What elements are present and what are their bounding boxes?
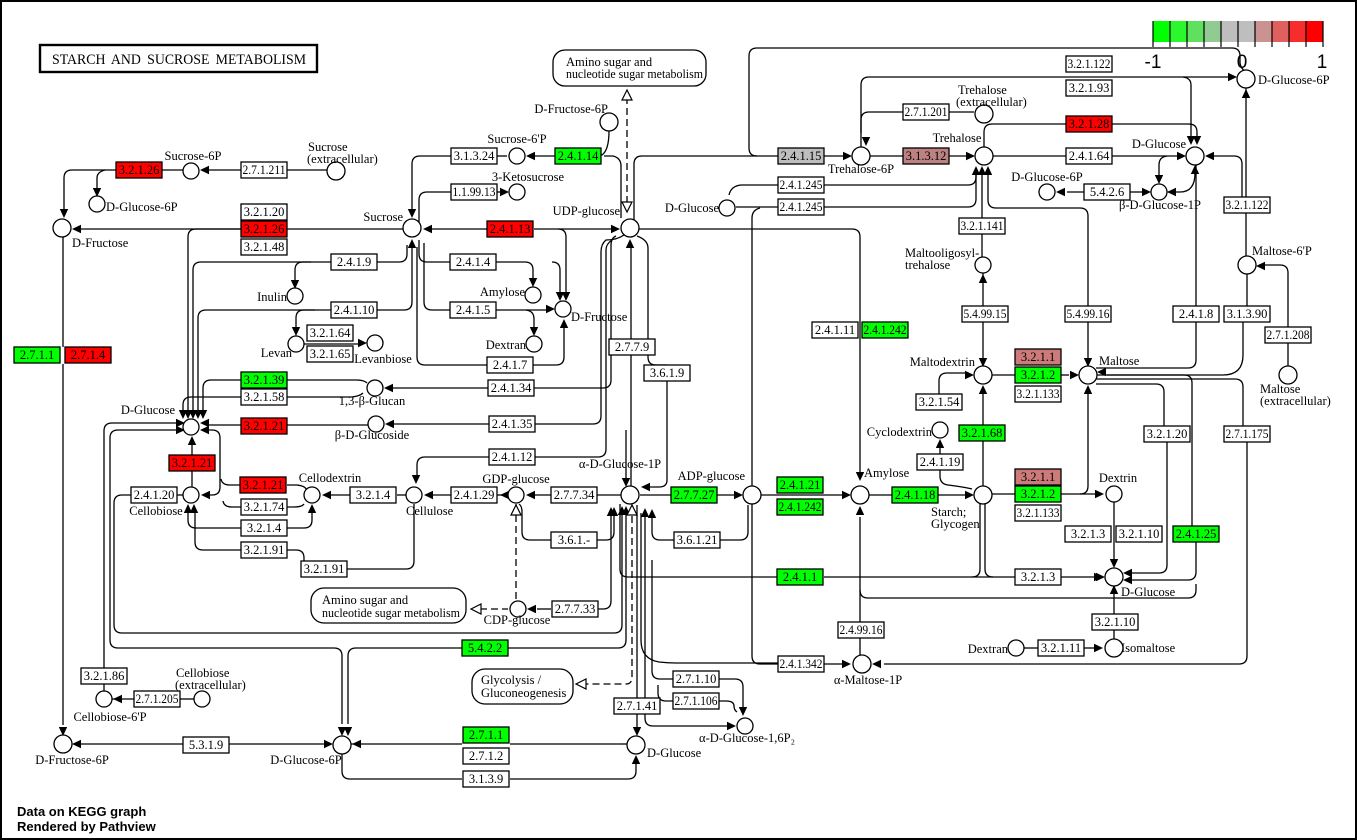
compound Trehalose	[975, 147, 993, 165]
wire 2.7.1.208 to Maltose-6pP	[1259, 265, 1288, 327]
wire 2.4.1.7 to Sucrose	[417, 247, 487, 365]
svg-text:3.2.1.10: 3.2.1.10	[1119, 527, 1160, 541]
enzyme box 2.7.1.211	[241, 162, 287, 178]
compound D-Glucose mid	[719, 200, 735, 216]
svg-text:Cellodextrin: Cellodextrin	[299, 471, 362, 485]
svg-text:2.4.1.242: 2.4.1.242	[864, 323, 907, 337]
enzyme box 2.4.1.1	[777, 569, 823, 585]
enzyme box 2.7.1.201	[903, 104, 949, 120]
svg-text:3.2.1.11: 3.2.1.11	[1041, 641, 1081, 655]
svg-text:Dextrin: Dextrin	[1099, 471, 1138, 485]
svg-text:nucleotide sugar metabolism: nucleotide sugar metabolism	[566, 67, 703, 81]
wire 2.4.1.12 to Cellulose	[417, 457, 489, 476]
wire 5.4.2.6 to D-Glucose-6P small	[1067, 191, 1084, 193]
svg-text:2.7.1.106: 2.7.1.106	[675, 694, 718, 708]
arrowhead	[856, 506, 864, 515]
svg-text:(extracellular): (extracellular)	[956, 95, 1027, 109]
compound Maltose (extracellular)	[1279, 366, 1297, 384]
wire 5.4.2.2 long line	[348, 513, 626, 724]
arrowhead	[978, 166, 986, 175]
arrowhead	[1193, 136, 1201, 145]
svg-text:3.1.3.24: 3.1.3.24	[454, 149, 495, 163]
arrowhead	[560, 319, 568, 328]
arrowhead	[1095, 490, 1104, 498]
enzyme box 3.2.1.68	[959, 425, 1005, 441]
wire 2.4.1.19 to Cyclodextrin	[939, 445, 941, 454]
svg-text:2.7.1.175: 2.7.1.175	[1226, 427, 1269, 441]
enzyme box 2.7.1.175	[1224, 426, 1270, 442]
arrowhead	[199, 410, 207, 419]
arrowhead	[856, 472, 864, 481]
wire Sucrose-6P to 3.2.1.26	[162, 169, 183, 171]
enzyme box 2.4.1.9	[331, 254, 377, 270]
wire 2.4.1.10 to Sucrose	[377, 246, 412, 310]
compound Maltooligosyltrehalose	[975, 257, 991, 273]
svg-text:3.2.1.65: 3.2.1.65	[310, 347, 351, 361]
wire Amylose junction to 2.4.1.18	[869, 494, 892, 496]
compound D-Glucose-6P	[89, 196, 105, 212]
enzyme box 2.4.1.245	[778, 177, 824, 193]
svg-text:1.1.99.13: 1.1.99.13	[453, 185, 496, 199]
svg-text:α-D-Glucose-1,6P₂: α-D-Glucose-1,6P₂	[699, 731, 795, 745]
wire 2.4.1.245b to Trehalose	[824, 172, 976, 207]
arrowhead	[93, 188, 101, 197]
enzyme box 3.2.1.122	[1066, 56, 1112, 72]
enzyme box 2.7.7.9	[609, 339, 655, 355]
arrowhead	[607, 507, 615, 516]
wire 3.2.1.122 to Maltose-6pP	[1245, 213, 1247, 256]
arrowhead	[727, 722, 736, 730]
wire 5.4.99.15 to Maltodextrin	[982, 322, 984, 358]
arrowhead	[189, 410, 197, 419]
wire Trehalose-6P to 3.1.3.12	[870, 155, 903, 157]
wire 2.4.1.245b line to ADP-glucose	[752, 208, 760, 486]
wire Trehalose to 2.4.1.64	[993, 155, 1066, 157]
wire 2.7.1.106 to alpha-D-Glucose-1,6P2	[719, 701, 737, 712]
enzyme box 3.2.1.21	[240, 477, 286, 493]
wire 3.1.3.24 loop to Sucrose	[412, 156, 451, 212]
svg-text:Maltose: Maltose	[1099, 354, 1140, 368]
arrowhead	[546, 305, 555, 313]
wire 3.6.1.9 to alpha-D-Glucose-1P	[647, 381, 667, 487]
enzyme box 3.2.1.21	[241, 418, 287, 434]
enzyme box 3.1.3.12	[903, 148, 949, 164]
wire D-Glucose mid to 2.4.1.245b	[736, 206, 778, 208]
compound UDP-glucose	[621, 219, 639, 237]
wire 3.2.1.39 to D-Glucose left	[203, 380, 241, 411]
svg-text:3.2.1.68: 3.2.1.68	[962, 426, 1003, 440]
enzyme box 5.4.99.16	[1065, 306, 1111, 322]
wire 2.4.1.34 to 1,3-b-Glucan	[393, 387, 489, 389]
svg-text:Sucrose-6P: Sucrose-6P	[165, 149, 222, 163]
enzyme box 3.2.1.39	[241, 372, 287, 388]
svg-text:Cellulose: Cellulose	[406, 504, 454, 518]
compound Sucrose-6P	[183, 163, 199, 179]
wire UDP-glucose to alpha-D-Glucose-1P via 2.7.7.9	[630, 248, 632, 487]
enzyme box 2.7.1.2	[463, 748, 509, 764]
compound D-Glucose low	[1105, 568, 1123, 586]
wire 633 line to alpha-D-Glucose-1P	[122, 513, 622, 633]
svg-text:3.2.1.133: 3.2.1.133	[1017, 387, 1060, 401]
svg-text:3.2.1.2: 3.2.1.2	[1021, 487, 1055, 501]
enzyme box 5.4.2.2	[462, 640, 508, 656]
wire 3.2.1.28 to D-Glucose	[1112, 124, 1197, 137]
svg-text:3.2.1.26: 3.2.1.26	[244, 222, 285, 236]
compound ADP-glucose	[743, 486, 761, 504]
arrowhead	[1094, 644, 1103, 652]
wire 2.7.1.10 left	[652, 560, 673, 679]
wire 2.4.1.9 to Inulin	[295, 262, 331, 280]
arrowhead	[1097, 368, 1106, 376]
compound alpha-D-Glucose-1,6P2	[737, 718, 753, 734]
svg-text:(extracellular): (extracellular)	[1260, 394, 1331, 408]
enzyme box 5.3.1.9	[183, 737, 229, 753]
wire 2.4.1.25 to D-Glucose low	[1131, 542, 1196, 580]
enzyme box 2.4.99.16	[838, 622, 884, 638]
svg-text:2.4.1.14: 2.4.1.14	[558, 149, 599, 163]
wire Sucrose line down to Amylose junction	[639, 229, 860, 477]
arrowhead	[190, 504, 198, 513]
arrowhead	[1167, 188, 1176, 196]
wire 2.4.1.342 to alpha-Maltose-1P	[824, 663, 842, 665]
svg-text:Maltodextrin: Maltodextrin	[910, 355, 976, 369]
arrowhead	[184, 504, 192, 513]
wire 2.4.1.4 to Sucrose	[419, 240, 450, 262]
arrowhead	[527, 605, 536, 613]
svg-text:2.4.1.10: 2.4.1.10	[334, 303, 375, 317]
wire Starch junction split left to 2.4.1.1 line	[972, 503, 980, 577]
arrowhead	[385, 420, 394, 428]
svg-text:3.2.1.141: 3.2.1.141	[961, 219, 1004, 233]
enzyme box 3.2.1.2	[1015, 486, 1061, 502]
wire GDP-glucose to 2.4.1.29	[497, 494, 508, 496]
svg-text:2.7.7.34: 2.7.7.34	[554, 488, 595, 502]
arrowhead	[292, 327, 300, 336]
arrowhead	[72, 740, 81, 748]
arrowhead	[734, 491, 743, 499]
wire branch to D-Glucose-6P	[97, 170, 105, 188]
dashed GDP-glucose to CDP-glucose	[515, 504, 517, 601]
svg-text:3.2.1.39: 3.2.1.39	[244, 373, 285, 387]
wire left line to D-Glucose-6P low	[118, 648, 342, 724]
arrowhead	[979, 385, 987, 394]
arrowhead	[1191, 165, 1199, 174]
enzyme box 2.4.1.14	[555, 148, 601, 164]
wire 3.6.1.21 to alpha-D-Glucose-1P	[652, 513, 674, 540]
enzyme box 2.7.7.34	[551, 487, 597, 503]
wire 3.2.1.86 to Cellobiose-6pP	[103, 668, 105, 693]
wire 2.4.1.15 to Trehalose-6P	[824, 155, 845, 157]
svg-text:STARCH AND SUCROSE METABOLI: STARCH AND SUCROSE METABOLISM	[52, 52, 306, 68]
arrowhead	[324, 740, 333, 748]
svg-text:2.4.1.5: 2.4.1.5	[456, 303, 490, 317]
enzyme box 2.4.1.4	[450, 254, 496, 270]
compound 1,3-beta-Glucan	[367, 380, 383, 396]
enzyme box 2.4.1.64	[1066, 148, 1112, 164]
enzyme box 3.2.1.91	[301, 561, 347, 577]
wire 2.7.1.41 to D-Glucose bottom	[636, 714, 638, 730]
wire to D-Glucose bottom	[620, 743, 628, 745]
arrowhead	[424, 491, 433, 499]
wire D-Glucose low to 3.2.1.10b	[1113, 586, 1115, 614]
wire 3.2.1.4b to Cellodextrin	[287, 510, 312, 528]
wire 2.4.1.18 to Starch junction	[938, 494, 967, 496]
svg-text:D-Glucose-6P: D-Glucose-6P	[106, 200, 178, 214]
wire 2.7.7.34 to alpha-D-Glucose-1P	[597, 494, 621, 496]
wire 3.2.1.91b to Cellulose	[347, 504, 414, 569]
wire 3.2.1.21b to Cellobiose junction	[191, 471, 193, 487]
arrowhead	[1228, 73, 1237, 81]
svg-text:3.2.1.3: 3.2.1.3	[1071, 527, 1105, 541]
enzyme box 3.2.1.2	[1015, 367, 1061, 383]
wire D-Glucose-6P low to 2.7.1.1	[351, 743, 462, 745]
svg-text:1,3-β-Glucan: 1,3-β-Glucan	[339, 394, 406, 408]
arrowhead	[965, 371, 974, 379]
wire branch to beta-D-Glucose-1P	[1159, 156, 1167, 180]
compound Maltose	[1079, 366, 1097, 384]
compound D-Glucose-6P low	[333, 736, 351, 754]
dashed alpha-1P to glycolysis	[586, 505, 632, 684]
svg-text:Rendered by Pathview: Rendered by Pathview	[17, 819, 157, 834]
wire ADP-glucose to Amylose junction	[761, 494, 844, 496]
compound D-Fructose	[53, 219, 71, 237]
compound Sucrose	[403, 219, 421, 237]
module link Glycolysis / Gluconeogenesis	[472, 669, 573, 704]
arrowhead	[529, 278, 537, 287]
svg-text:Trehalose: Trehalose	[933, 131, 982, 145]
enzyme box 2.4.1.34	[488, 380, 534, 396]
svg-text:nucleotide sugar metabolism: nucleotide sugar metabolism	[322, 606, 460, 620]
enzyme box 2.4.1.242	[862, 322, 908, 338]
arrowhead	[176, 426, 185, 434]
svg-text:3.2.1.21: 3.2.1.21	[172, 456, 213, 470]
svg-text:3-Ketosucrose: 3-Ketosucrose	[492, 170, 565, 184]
enzyme box 3.2.1.64	[307, 325, 353, 341]
wire Maltose to 3.2.1.20b	[1096, 384, 1164, 426]
arrowhead	[618, 506, 626, 515]
compound Maltose-6'P	[1238, 256, 1256, 274]
svg-text:5.4.99.15: 5.4.99.15	[964, 307, 1007, 321]
wire 2.4.1.20 down long	[114, 495, 131, 633]
arrowhead	[610, 507, 618, 516]
compound Inulin	[287, 288, 303, 304]
compound beta-D-Glucoside	[368, 416, 384, 432]
svg-text:3.2.1.20: 3.2.1.20	[1147, 427, 1188, 441]
wire Dextrin to D-Glucose low	[1113, 502, 1115, 559]
compound D-Glucose-6P small	[1039, 184, 1055, 200]
wire branch up to Maltose	[1080, 394, 1088, 494]
svg-text:D-Glucose: D-Glucose	[647, 746, 702, 760]
arrowhead	[1084, 358, 1092, 367]
wire 2.4.1.245a to D-Glucose mid	[729, 185, 778, 195]
svg-text:3.2.1.64: 3.2.1.64	[310, 326, 351, 340]
wire Amylose junction to D-Glucose low	[860, 584, 1196, 598]
wire Trehalose to 5.4.99.16 (Maltose link)	[988, 172, 1088, 306]
svg-text:Dextran: Dextran	[968, 642, 1009, 656]
wire 3.2.1.141 to Maltooligosyltrehalose	[981, 234, 983, 257]
enzyme box 2.4.1.13	[487, 221, 533, 237]
wire 3.2.1.58 to 1,3-b-Glucan	[287, 393, 363, 397]
wire Trehalose-6P up to D-Glucose-6P	[861, 77, 1228, 147]
open arrowhead	[622, 90, 632, 100]
svg-text:3.1.3.90: 3.1.3.90	[1227, 307, 1268, 321]
wire D-Glucose-6P to 3.2.1.122	[1245, 88, 1247, 197]
wire 2.7.1.201 to Trehalose-6P	[861, 112, 903, 133]
compound Cellobiose-6'P	[96, 691, 112, 707]
arrowhead	[526, 491, 535, 499]
svg-text:2.4.1.15: 2.4.1.15	[781, 149, 822, 163]
arrowhead	[633, 727, 641, 736]
enzyme box 3.2.1.28	[1066, 116, 1112, 132]
wire D-Glucose left to 3.2.1.86	[104, 423, 177, 668]
wire to alpha-D-Glucose-1,6P2	[645, 513, 727, 726]
arrowhead	[1142, 188, 1151, 196]
svg-text:Glycogen: Glycogen	[931, 517, 980, 531]
wire Maltose-6pP to 3.1.3.90	[1246, 274, 1248, 306]
wire 2.7.7.34 arrow	[534, 494, 551, 496]
svg-text:1: 1	[1317, 52, 1328, 73]
wire ADP-glucose to 2.4.1.342	[752, 504, 778, 664]
wire Dextran low to 3.2.1.11	[1024, 647, 1038, 649]
enzyme box 2.4.1.7	[487, 357, 533, 373]
svg-text:2.4.1.19: 2.4.1.19	[920, 455, 961, 469]
svg-text:D-Fructose: D-Fructose	[72, 236, 129, 250]
wire 1.1.99.13 to 3-Ketosucrose	[497, 191, 503, 193]
wire Amylose junction to alpha-Maltose-1P	[859, 517, 861, 655]
arrowhead	[322, 491, 331, 499]
svg-text:2.7.1.41: 2.7.1.41	[617, 699, 658, 713]
svg-text:2.4.1.20: 2.4.1.20	[134, 488, 175, 502]
wire Maltooligosyltrehalose to 5.4.99.15	[982, 273, 984, 306]
enzyme box 3.2.1.3	[1015, 569, 1061, 585]
wire 3.2.1.21c to riser	[221, 479, 240, 485]
svg-text:2.7.7.9: 2.7.7.9	[615, 340, 649, 354]
svg-text:3.2.1.91: 3.2.1.91	[244, 543, 285, 557]
svg-text:3.2.1.1: 3.2.1.1	[1021, 470, 1055, 484]
enzyme box 3.2.1.10	[1092, 614, 1138, 630]
wire Maltose to 2.7.1.175	[1096, 379, 1243, 426]
svg-text:3.6.1.9: 3.6.1.9	[650, 366, 684, 380]
svg-text:Cellobiose-6'P: Cellobiose-6'P	[73, 710, 146, 724]
svg-text:2.4.1.12: 2.4.1.12	[492, 450, 533, 464]
wire 3.2.1.21c to Cellodextrin	[287, 485, 306, 489]
enzyme box 3.2.1.58	[241, 389, 287, 405]
wire 3.6.1.- to alpha-D-Glucose-1P	[597, 513, 614, 540]
wire 2.4.1.245a to Trehalose	[824, 170, 976, 185]
svg-text:3.2.1.133: 3.2.1.133	[1017, 506, 1060, 520]
wire 2.4.1.1 to 3.2.1.3b	[824, 576, 1015, 578]
arrowhead	[408, 209, 416, 218]
enzyme box 2.4.1.10	[331, 302, 377, 318]
svg-text:2.4.1.35: 2.4.1.35	[492, 417, 533, 431]
svg-text:3.2.1.1: 3.2.1.1	[1021, 350, 1055, 364]
wire 2.4.1.14 to Sucrose-6pP	[528, 155, 555, 157]
svg-text:Trehalose-6P: Trehalose-6P	[828, 162, 894, 176]
arrowhead	[979, 274, 987, 283]
compound Cellobiose (extracellular)	[194, 691, 210, 707]
svg-text:3.2.1.20: 3.2.1.20	[244, 205, 285, 219]
arrowhead	[641, 508, 649, 517]
wire D-Glucose left to Cellobiose junction	[209, 430, 220, 495]
svg-text:Data on KEGG graph: Data on KEGG graph	[17, 804, 146, 819]
svg-text:2.7.7.33: 2.7.7.33	[555, 602, 596, 616]
svg-text:α-Maltose-1P: α-Maltose-1P	[834, 673, 902, 687]
arrowhead	[201, 491, 210, 499]
wire alpha-1P swoop to 2.4.1.342	[641, 513, 778, 663]
enzyme box 2.4.1.342	[778, 656, 824, 672]
wire branch a to D-Fructose mid	[552, 262, 560, 293]
enzyme box 3.2.1.26	[116, 162, 162, 178]
enzyme box 2.7.7.33	[552, 601, 598, 617]
svg-text:3.2.1.3: 3.2.1.3	[1021, 570, 1055, 584]
enzyme box 2.7.7.27	[671, 487, 717, 503]
arrowhead	[184, 410, 192, 419]
svg-text:3.2.1.91: 3.2.1.91	[304, 562, 345, 576]
wire 3.2.1.26 branch to D-Glucose left	[188, 229, 241, 411]
enzyme box 3.2.1.122	[1224, 197, 1270, 213]
wire branch b to D-Fructose mid	[558, 229, 566, 293]
wire Maltose to 2.4.1.25	[1096, 375, 1192, 526]
wire 2.7.1.201 to Trehalose (extracellular)	[949, 111, 974, 113]
svg-text:3.2.1.48: 3.2.1.48	[244, 240, 285, 254]
wire 3.2.1.74 to Cellodextrin	[287, 504, 304, 507]
enzyme box 3.2.1.93	[1066, 80, 1112, 96]
svg-text:(extracellular): (extracellular)	[175, 678, 246, 692]
compound Dextrin	[1106, 486, 1122, 502]
wire 3.2.1.4b to junction	[188, 512, 241, 528]
enzyme box 2.4.1.35	[489, 416, 535, 432]
arrowhead	[641, 483, 650, 491]
arrowhead	[1094, 573, 1103, 581]
arrowhead	[872, 660, 881, 668]
arrowhead	[423, 225, 432, 233]
compound Starch Glycogen	[974, 486, 992, 504]
svg-text:3.1.3.9: 3.1.3.9	[469, 772, 503, 786]
wire 2.4.1.13 to UDP-glucose	[534, 228, 612, 230]
wire second vertical into alpha-D-Glucose-1P	[625, 430, 627, 478]
svg-text:2.7.1.211: 2.7.1.211	[243, 163, 286, 177]
arrowhead	[1110, 585, 1118, 594]
svg-text:Levanbiose: Levanbiose	[354, 352, 412, 366]
arrowhead	[176, 419, 185, 427]
module link Amino sugar and nucleotide sugar metabolism (top)	[553, 50, 706, 86]
wire Trehalose to 3.2.1.28	[984, 124, 1066, 147]
svg-text:2.7.7.27: 2.7.7.27	[674, 488, 715, 502]
arrowhead	[936, 439, 944, 448]
arrowhead	[966, 152, 975, 160]
compound Trehalose (extracellular)	[975, 105, 993, 123]
enzyme box 3.1.3.90	[1224, 306, 1270, 322]
svg-text:CDP-glucose: CDP-glucose	[484, 613, 551, 627]
wire D-Fructose-6P to 2.4.1.14	[601, 131, 609, 155]
arrowhead	[1123, 569, 1132, 577]
compound D-Glucose left	[183, 419, 199, 435]
svg-text:2.4.1.21: 2.4.1.21	[780, 478, 821, 492]
compound D-Fructose-6P low	[54, 735, 72, 753]
svg-text:Sucrose-6'P: Sucrose-6'P	[487, 132, 546, 146]
module link Amino sugar and nucleotide sugar metabolism (middle)	[311, 588, 466, 623]
enzyme box 3.6.1.-	[551, 532, 597, 548]
compound Trehalose-6P	[852, 147, 870, 165]
enzyme box 2.4.1.19	[917, 454, 963, 470]
svg-text:2.7.1.205: 2.7.1.205	[136, 692, 179, 706]
svg-text:3.2.1.93: 3.2.1.93	[1069, 81, 1110, 95]
svg-text:2.4.1.9: 2.4.1.9	[337, 255, 371, 269]
wire 2.4.1.5 to D-Fructose mid	[496, 309, 546, 311]
enzyme box 3.2.1.54	[916, 394, 962, 410]
enzyme box 2.7.1.10	[673, 671, 719, 687]
svg-text:3.2.1.74: 3.2.1.74	[244, 500, 285, 514]
